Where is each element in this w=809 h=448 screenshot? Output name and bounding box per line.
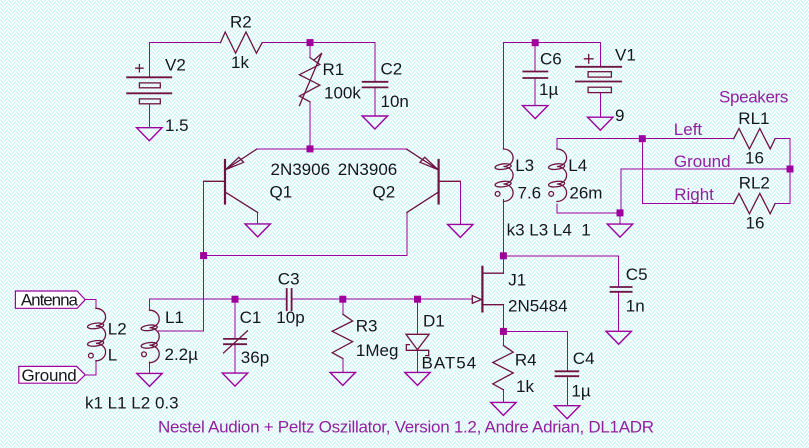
wire drain node to C5	[503, 256, 618, 287]
wire R3 top lead	[342, 299, 344, 314]
svg-text:L4: L4	[568, 156, 587, 175]
svg-text:16: 16	[746, 213, 765, 232]
svg-text:R3: R3	[356, 316, 378, 335]
svg-text:Speakers: Speakers	[719, 88, 788, 107]
svg-text:16: 16	[745, 149, 764, 168]
wire R4 bottom lead	[502, 390, 504, 403]
node drain C5	[500, 252, 507, 259]
wire speakers ground row	[621, 168, 790, 170]
battery V2	[127, 65, 171, 104]
wire C3 right to R3 D1 and J1 gate	[292, 298, 473, 300]
ground R3	[330, 372, 355, 385]
transistor Q2	[407, 149, 461, 212]
svg-text:C1: C1	[240, 308, 262, 327]
antenna flag	[15, 291, 85, 308]
svg-text:D1: D1	[423, 312, 445, 331]
wire R3 bottom lead	[342, 359, 344, 373]
resistor R3	[332, 314, 352, 358]
svg-text:BAT54: BAT54	[422, 354, 478, 373]
svg-text:Antenna: Antenna	[21, 290, 79, 309]
svg-text:C5: C5	[626, 265, 648, 284]
svg-text:Ground: Ground	[22, 366, 77, 385]
svg-text:1k: 1k	[516, 377, 534, 396]
inductor L1 phase dot	[142, 352, 147, 357]
svg-text:R4: R4	[515, 350, 537, 369]
jfet J1	[472, 267, 503, 312]
ground Q2	[448, 224, 473, 237]
svg-text:C4: C4	[573, 349, 595, 368]
ground L1	[137, 373, 162, 386]
capacitor C1	[224, 331, 248, 353]
inductor L3	[495, 149, 513, 202]
node source R4 C4	[500, 328, 507, 335]
wire R2 to C2 corner	[262, 43, 375, 81]
svg-text:2.2µ: 2.2µ	[165, 345, 199, 364]
wire Right row	[642, 139, 733, 204]
wire RL2 right lead	[775, 203, 790, 205]
wire L2 bottom to ground tag	[85, 360, 96, 375]
ground C1	[222, 373, 247, 386]
svg-text:10p: 10p	[276, 308, 304, 327]
svg-text:7.6: 7.6	[518, 184, 542, 203]
svg-text:1.5: 1.5	[165, 116, 189, 135]
svg-text:V1: V1	[615, 46, 636, 65]
wire C6 bottom lead	[534, 78, 536, 105]
svg-text:10n: 10n	[381, 92, 409, 111]
wire C4 bottom lead	[566, 376, 568, 405]
resistor R1	[299, 54, 321, 106]
svg-text:Nestel Audion + Peltz Oszillat: Nestel Audion + Peltz Oszillator, Versio…	[158, 418, 654, 437]
wire L1 bottom lead	[149, 362, 151, 373]
svg-text:2N3906: 2N3906	[271, 160, 331, 179]
svg-text:1n: 1n	[626, 297, 645, 316]
ground V2	[137, 128, 162, 141]
transistor Q1	[204, 149, 258, 212]
svg-text:C6: C6	[540, 50, 562, 69]
node R3	[339, 296, 346, 303]
wire C3 left lead	[235, 298, 287, 300]
svg-text:C2: C2	[381, 60, 403, 79]
node speaker ground	[617, 209, 624, 216]
wire antenna tag to L2	[85, 300, 96, 309]
ground D1	[405, 372, 430, 385]
svg-text:V2: V2	[165, 56, 186, 75]
ground speakers	[607, 224, 632, 237]
wire RL1 right lead down	[775, 139, 790, 204]
node C1	[232, 296, 239, 303]
capacitor C5	[611, 287, 632, 292]
svg-text:2N5484: 2N5484	[508, 296, 568, 315]
diode D1	[406, 334, 429, 355]
ground C5	[606, 331, 631, 344]
svg-text:k3 L3 L4 1: k3 L3 L4 1	[507, 221, 591, 240]
capacitor C3	[287, 289, 292, 310]
wire C5 bottom lead	[618, 292, 620, 331]
wire J1 drain lead	[483, 256, 503, 273]
wire V2 top to R2	[149, 42, 220, 44]
svg-text:Right: Right	[674, 185, 714, 204]
resistor R2	[221, 32, 263, 53]
wire Q1 base down	[203, 181, 205, 255]
svg-text:C3: C3	[278, 269, 300, 288]
wire L3 bottom to drain node	[502, 199, 504, 255]
wire L4 top to Left node	[557, 139, 642, 149]
ground Q1	[245, 224, 270, 237]
ground C4	[554, 406, 579, 419]
svg-text:9: 9	[615, 106, 624, 125]
svg-text:L3: L3	[515, 156, 534, 175]
wire V2 bottom lead	[148, 104, 150, 128]
node speakers right	[787, 166, 794, 173]
svg-text:2N3906: 2N3906	[338, 160, 398, 179]
svg-text:L2: L2	[108, 320, 127, 339]
svg-text:k1 L1 L2 0.3: k1 L1 L2 0.3	[85, 394, 179, 413]
wire D1 bottom lead	[417, 350, 419, 372]
svg-text:L: L	[108, 346, 117, 365]
inductor L3 phase dot	[495, 192, 500, 197]
node Left	[639, 135, 646, 142]
wire C6 top lead	[534, 43, 536, 72]
svg-text:26m: 26m	[569, 184, 602, 203]
svg-text:R1: R1	[323, 60, 345, 79]
wire Left to RL1	[642, 138, 733, 140]
svg-text:Ground: Ground	[674, 152, 731, 171]
node emitter bus	[307, 145, 314, 152]
svg-text:Q1: Q1	[270, 183, 293, 202]
resistor RL2	[734, 193, 775, 213]
wire R1 bottom to emitter bus	[309, 102, 311, 149]
wire V1 top lead	[599, 43, 601, 67]
wire speaker ground node down	[619, 213, 621, 224]
wire ground row left down	[620, 169, 622, 213]
svg-text:1Meg: 1Meg	[356, 341, 399, 360]
capacitor C6	[523, 72, 547, 79]
svg-text:RL1: RL1	[738, 109, 769, 128]
wire J1 source lead	[483, 305, 503, 332]
wire Q1 collector drop	[257, 213, 259, 224]
wire C1 top lead	[234, 299, 236, 339]
svg-text:1µ: 1µ	[571, 381, 590, 400]
node R2-R1-C2	[307, 39, 314, 46]
wire emitter bus	[256, 148, 406, 150]
svg-text:L1: L1	[165, 308, 184, 327]
inductor L2 phase dot	[89, 353, 94, 358]
svg-text:36p: 36p	[241, 348, 269, 367]
wire C6 node to V1	[503, 42, 600, 44]
node Q1 base	[200, 252, 207, 259]
wire L1 top to signal line	[150, 299, 236, 310]
wire C1 bottom lead	[234, 344, 236, 373]
wire base bus to Q2 collector	[204, 212, 407, 255]
svg-text:1µ: 1µ	[539, 80, 558, 99]
svg-text:1k: 1k	[231, 53, 249, 72]
inductor L2	[87, 308, 105, 361]
wire V2 lead	[148, 43, 150, 78]
battery V1	[576, 55, 621, 93]
inductor L4	[548, 149, 566, 202]
ground R4	[491, 402, 516, 415]
wire Q2 base down	[459, 181, 461, 224]
resistor RL1	[734, 129, 775, 149]
svg-text:100k: 100k	[324, 84, 361, 103]
wire C2 bottom lead	[374, 87, 376, 115]
wire V1 bottom lead	[599, 93, 601, 117]
svg-text:Left: Left	[674, 120, 703, 139]
svg-text:RL2: RL2	[739, 174, 770, 193]
wire R4 top lead	[502, 331, 504, 345]
svg-text:R2: R2	[230, 12, 252, 31]
inductor L1	[141, 310, 159, 363]
wire Q1 base tap down to L1	[159, 256, 204, 331]
svg-text:J1: J1	[508, 271, 526, 290]
node C6-V1	[532, 39, 539, 46]
ground C2	[362, 116, 387, 129]
ground flag	[19, 366, 85, 383]
wire L4 bottom to speaker ground node	[557, 204, 620, 213]
resistor R4	[493, 345, 513, 389]
ground V1	[588, 117, 613, 130]
svg-text:Q2: Q2	[373, 183, 396, 202]
wire L3 vertical from top node	[502, 43, 504, 150]
wire D1 top lead	[417, 299, 419, 334]
wire source node to C4	[503, 331, 567, 371]
wire R1 top lead	[309, 43, 311, 58]
capacitor C2	[363, 82, 388, 88]
inductor L4 phase dot	[549, 192, 554, 197]
ground C6	[523, 106, 548, 119]
capacitor C4	[556, 371, 579, 376]
node D1	[414, 296, 421, 303]
